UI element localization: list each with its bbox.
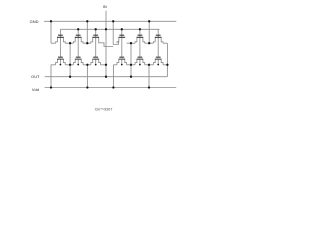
svg-text:OUT: OUT — [31, 74, 40, 79]
svg-text:Vdd: Vdd — [32, 87, 39, 92]
svg-text:Cin*=9307: Cin*=9307 — [95, 108, 113, 112]
svg-text:GND: GND — [30, 19, 39, 24]
svg-text:IN: IN — [103, 4, 107, 9]
